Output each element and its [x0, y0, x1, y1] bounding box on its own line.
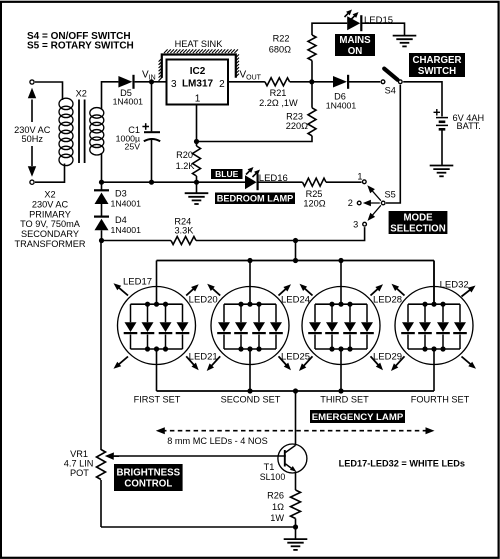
label box BLUE	[211, 169, 243, 179]
rotary switch S5 terminal 1	[362, 180, 366, 184]
wire LED top bus	[157, 260, 435, 262]
svg-text:1N4001: 1N4001	[111, 198, 142, 208]
AC source double arrow	[31, 100, 33, 123]
svg-text:R23: R23	[286, 111, 303, 121]
svg-text:3: 3	[353, 219, 358, 229]
svg-text:SELECTION: SELECTION	[390, 223, 445, 234]
switch S4	[384, 69, 397, 80]
label box MODE SELECTION	[389, 211, 448, 234]
svg-text:ON: ON	[348, 46, 363, 57]
LED cluster set 2	[217, 302, 283, 352]
wire drop into set 4	[433, 261, 435, 305]
svg-text:CONTROL: CONTROL	[124, 478, 172, 489]
svg-text:X2: X2	[44, 190, 55, 200]
svg-text:680Ω: 680Ω	[269, 45, 291, 55]
wire bottom return rail	[101, 526, 296, 528]
svg-text:SECOND SET: SECOND SET	[221, 395, 281, 405]
label box BRIGHTNESS CONTROL	[114, 464, 183, 491]
diode D4	[94, 216, 109, 218]
svg-text:1: 1	[357, 171, 362, 181]
label box CHARGER SWITCH	[409, 53, 465, 77]
potentiometer VR1	[97, 450, 106, 480]
wire riser from set 4	[433, 349, 435, 391]
heat sink outline	[159, 49, 239, 80]
svg-text:220Ω: 220Ω	[286, 121, 308, 131]
wire IC2 pin1 to adjust node	[196, 105, 198, 147]
svg-text:LED15: LED15	[364, 15, 393, 26]
label box EMERGENCY LAMP	[310, 410, 405, 423]
svg-text:HEAT SINK: HEAT SINK	[175, 39, 224, 49]
svg-text:MODE: MODE	[403, 213, 433, 224]
node adjust junction	[194, 139, 199, 144]
wire secondary top to D5	[102, 82, 119, 109]
rotary switch S5 pivot and wipers	[381, 201, 385, 205]
svg-text:SL100: SL100	[260, 472, 286, 482]
transformer X2 primary winding	[59, 98, 73, 165]
svg-text:LED25: LED25	[281, 351, 310, 362]
svg-text:TRANSFORMER: TRANSFORMER	[15, 239, 86, 249]
svg-text:BATT.: BATT.	[457, 121, 481, 131]
wire D6 to S4	[348, 81, 381, 83]
svg-text:S5 = ROTARY SWITCH: S5 = ROTARY SWITCH	[27, 41, 134, 52]
wire R20 bottom	[196, 176, 198, 182]
wire R24 to left rail	[102, 240, 172, 242]
svg-text:1: 1	[195, 93, 201, 104]
wire LED16 to R25	[258, 181, 302, 183]
svg-text:3.3K: 3.3K	[174, 225, 194, 235]
lamp set 4 circle	[395, 287, 473, 365]
svg-text:LED28: LED28	[373, 295, 402, 306]
wire bedroom lamp rail	[102, 181, 246, 183]
wire D5 to IC2 pin 3	[135, 81, 167, 83]
svg-text:2: 2	[348, 198, 353, 208]
wire riser from set 1	[156, 349, 158, 391]
ground LED15	[393, 35, 417, 37]
ground battery	[430, 165, 454, 167]
svg-text:230V AC: 230V AC	[32, 199, 69, 209]
wire D3 to D4	[101, 204, 103, 217]
resistor R24	[171, 237, 196, 245]
label box MAINS ON	[335, 34, 375, 56]
light arrows around LED28	[371, 287, 380, 295]
svg-text:2: 2	[219, 79, 225, 90]
svg-text:BRIGHTNESS: BRIGHTNESS	[117, 468, 181, 479]
rotary switch S5 terminal 3	[363, 222, 367, 226]
transformer X2 core	[78, 100, 80, 164]
svg-text:SECONDARY: SECONDARY	[21, 229, 79, 239]
resistor R22 with wire to LED15	[308, 35, 316, 61]
wire collector from bottom bus	[295, 391, 297, 445]
svg-text:LED32: LED32	[440, 280, 469, 291]
svg-text:120Ω: 120Ω	[303, 198, 325, 208]
light arrows set 1 outer	[117, 286, 128, 295]
svg-text:SWITCH: SWITCH	[418, 66, 456, 77]
wire C1 bottom	[151, 140, 153, 182]
capacitor C1	[144, 131, 160, 133]
wire primary bottom	[35, 164, 65, 183]
svg-text:LED29: LED29	[373, 351, 402, 362]
svg-text:R20: R20	[176, 150, 193, 160]
svg-text:X2: X2	[76, 88, 87, 98]
wire drop into set 3	[340, 261, 342, 305]
resistor R25	[303, 178, 327, 186]
wire primary top	[35, 82, 63, 100]
wire R26 to ground node	[295, 519, 297, 539]
label box BEDROOM LAMP	[215, 193, 295, 205]
ground R26	[284, 538, 308, 540]
node R20 ground junction	[194, 180, 199, 185]
svg-text:1N4001: 1N4001	[113, 97, 144, 107]
wire R21 to D6	[290, 81, 333, 83]
svg-text:BEDROOM LAMP: BEDROOM LAMP	[217, 194, 294, 204]
svg-text:S4: S4	[385, 85, 396, 95]
LED LED16	[245, 175, 257, 189]
wire R25 to S5 terminal 1	[326, 181, 362, 183]
svg-text:LED17: LED17	[123, 277, 152, 288]
terminal AC input top	[30, 80, 34, 84]
svg-text:1W: 1W	[270, 513, 284, 523]
diode D5	[118, 76, 132, 88]
node bottom bus junctions	[247, 388, 252, 393]
resistor R23	[308, 108, 316, 136]
wire feed from mode rail to top bus	[295, 241, 297, 261]
svg-text:BLUE: BLUE	[215, 169, 238, 179]
svg-text:1N4001: 1N4001	[326, 101, 357, 111]
node emitter ground junction	[293, 524, 298, 529]
resistor R21	[265, 78, 290, 86]
svg-text:R21: R21	[270, 88, 287, 98]
svg-text:R26: R26	[267, 491, 284, 501]
svg-text:1Ω: 1Ω	[272, 502, 284, 512]
svg-text:2.2Ω ,1W: 2.2Ω ,1W	[259, 98, 298, 108]
LED LED15	[347, 16, 360, 30]
svg-text:EMERGENCY LAMP: EMERGENCY LAMP	[312, 412, 404, 423]
svg-text:FOURTH SET: FOURTH SET	[411, 395, 470, 405]
resistor R26	[291, 490, 301, 519]
dashed size arrow 8mm MC LEDs	[162, 430, 428, 432]
transformer X2 secondary winding	[90, 108, 104, 155]
rotary switch S5 terminal 2	[357, 201, 361, 205]
wire left rail down to VR1	[100, 241, 102, 451]
wire emitter to R26	[295, 471, 297, 490]
node feed junction	[293, 238, 298, 243]
svg-text:LED24: LED24	[281, 295, 310, 306]
wire secondary bottom rail	[101, 154, 103, 191]
svg-text:TO 9V, 750mA: TO 9V, 750mA	[20, 219, 81, 229]
svg-text:LED21: LED21	[189, 351, 218, 362]
node VIN junction	[149, 79, 154, 84]
svg-text:CHARGER: CHARGER	[413, 55, 462, 66]
wire S5 terminal 3 down to R24 rail	[296, 227, 365, 240]
LED cluster set 3	[308, 302, 374, 352]
wire riser from set 2	[249, 349, 251, 391]
svg-text:THIRD SET: THIRD SET	[320, 395, 369, 405]
svg-text:IC2: IC2	[190, 66, 206, 77]
lamp set 3 circle	[302, 287, 380, 365]
svg-text:MAINS: MAINS	[339, 35, 371, 46]
svg-text:3: 3	[171, 79, 177, 90]
node R24 left junction	[99, 238, 104, 243]
svg-text:PRIMARY: PRIMARY	[29, 209, 71, 219]
svg-text:25V: 25V	[125, 141, 141, 151]
svg-text:VR1: VR1	[70, 449, 88, 459]
ground R20 node	[196, 182, 198, 192]
terminal AC input bottom	[30, 180, 34, 184]
battery 6V 4AH	[436, 117, 448, 119]
wire riser from set 3	[340, 349, 342, 391]
transistor T1 SL100	[278, 444, 307, 473]
svg-text:LED17-LED32 = WHITE LEDs: LED17-LED32 = WHITE LEDs	[339, 458, 465, 468]
svg-text:T1: T1	[264, 462, 275, 472]
svg-text:FIRST SET: FIRST SET	[134, 395, 181, 405]
light arrows around LED29	[371, 356, 380, 367]
wire C1 top	[151, 82, 153, 132]
diode D6	[333, 76, 347, 88]
wire VR1 wiper to T1 base	[114, 455, 286, 457]
node secondary bottom junction	[99, 180, 104, 185]
svg-text:D3: D3	[115, 189, 127, 199]
svg-text:LM317: LM317	[182, 79, 214, 90]
light arrows around LED20	[186, 287, 195, 295]
diode D3	[94, 189, 109, 191]
svg-text:D4: D4	[115, 215, 127, 225]
lamp set 2 circle	[211, 287, 289, 365]
lamp set 1 circle	[118, 287, 196, 365]
wire D4 to R24 node	[101, 230, 103, 240]
wire battery to ground	[441, 129, 443, 165]
wire R24 rail right segment	[196, 240, 296, 242]
svg-text:1.2K: 1.2K	[176, 161, 196, 171]
svg-text:R22: R22	[273, 34, 290, 44]
wire LED15 cathode to ground	[362, 23, 405, 35]
wire S4 to battery	[403, 82, 442, 117]
regulator IC2 LM317 body	[167, 60, 229, 105]
wire LED bottom bus	[157, 390, 435, 392]
LED cluster set 1	[124, 302, 190, 352]
svg-text:1N4001: 1N4001	[111, 225, 142, 235]
light arrows around LED24	[279, 287, 288, 295]
svg-text:50Hz: 50Hz	[21, 134, 43, 144]
svg-text:8 mm MC LEDs - 4 NOS: 8 mm MC LEDs - 4 NOS	[167, 436, 268, 446]
wire IC2 pin2 VOUT	[228, 81, 265, 83]
svg-text:POT: POT	[70, 468, 89, 478]
resistor R20	[193, 146, 201, 176]
svg-text:S5: S5	[385, 189, 396, 199]
node top bus junctions	[247, 258, 252, 263]
wire drop into set 2	[249, 261, 251, 305]
LED cluster set 4	[401, 302, 467, 352]
svg-text:LED20: LED20	[189, 295, 218, 306]
light arrows around LED25	[279, 356, 288, 367]
node R22 R23 junction	[309, 79, 314, 84]
light arrows set 4 outer	[462, 288, 472, 296]
node C1 bottom junction	[149, 180, 154, 185]
light arrows around LED21	[186, 356, 195, 367]
wire S4 to S5 common	[386, 85, 400, 203]
